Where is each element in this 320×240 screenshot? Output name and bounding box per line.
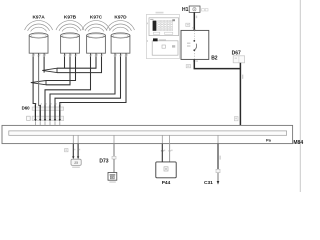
inset container bbox=[146, 12, 179, 59]
page border right bbox=[299, 0, 301, 192]
wire H1 to B2 bbox=[193, 12, 195, 30]
pin box A bbox=[65, 149, 68, 152]
wire bar to D73 bbox=[113, 135, 115, 156]
wire K97C pin3 to arrow1 bbox=[57, 57, 102, 73]
wires bar to connector block bbox=[72, 135, 80, 159]
junction bar M84 bbox=[2, 125, 293, 143]
svg-text:H1: H1 bbox=[182, 7, 189, 13]
svg-text:K97B: K97B bbox=[64, 15, 77, 21]
ignition coil K97C bbox=[82, 15, 110, 58]
wire K97A pin1 to D60 pin1 bbox=[33, 57, 35, 119]
horn H1 box bbox=[189, 6, 200, 12]
svg-text:K97D: K97D bbox=[114, 15, 127, 21]
H1 side marks bbox=[202, 9, 208, 11]
svg-text:M84: M84 bbox=[293, 140, 303, 146]
wires D60 into bar M84 bbox=[35, 121, 59, 131]
svg-text:D73: D73 bbox=[99, 159, 108, 165]
pin box below B2 bbox=[186, 65, 190, 68]
pin label B2 bottom bbox=[193, 60, 195, 62]
off-page arrow node 1 bbox=[42, 68, 57, 72]
arrow C31 bbox=[217, 181, 220, 185]
svg-text:25: 25 bbox=[74, 161, 78, 165]
sensor P44 box bbox=[156, 162, 176, 178]
wire K97D pin3 to D60 pin6 bbox=[60, 57, 126, 119]
svg-text:Pa: Pa bbox=[266, 138, 272, 143]
pin label B2 top bbox=[193, 29, 195, 31]
pin box on H1 wire bbox=[186, 23, 190, 26]
wire B2 to D67 node bbox=[194, 59, 240, 68]
wire D73 to ground box bbox=[113, 159, 115, 173]
wire D67 to bar M84 bbox=[239, 63, 241, 126]
wire K97B pin3 to arrow2 bbox=[46, 57, 76, 81]
wire K97B pin1 to arrow1 bus bbox=[64, 57, 66, 68]
wire K97D pin2 to D60 pin5 bbox=[55, 57, 121, 119]
svg-text:D60: D60 bbox=[22, 106, 31, 111]
wire K97A pin2 to D60 pin2 bbox=[39, 57, 41, 119]
connector D73 inline bbox=[112, 156, 116, 159]
ignition coil K97D bbox=[107, 15, 135, 58]
connector on C31 wire bbox=[216, 169, 220, 172]
wires bar to P44 bbox=[161, 135, 173, 162]
wire label bbox=[196, 16, 197, 19]
wire K97C pin2 to arrow1 bbox=[57, 57, 96, 68]
inset panel fusebox bottom bbox=[152, 38, 178, 55]
relay B2 box bbox=[181, 30, 209, 59]
wire K97D pin1 to D60 pin4 bbox=[50, 57, 115, 119]
wire code label bbox=[242, 75, 243, 79]
connector D60 body bbox=[27, 107, 64, 121]
off-page arrow node 2 bbox=[31, 81, 46, 85]
svg-text:K97C: K97C bbox=[90, 15, 103, 21]
ignition coil K97A bbox=[25, 15, 53, 58]
ground box G bbox=[108, 173, 117, 183]
wire D67 inside bar bbox=[239, 125, 241, 131]
wire bar to C31 bbox=[218, 135, 221, 169]
svg-text:P44: P44 bbox=[162, 180, 171, 186]
ignition coil K97B bbox=[56, 15, 84, 58]
svg-text:K97A: K97A bbox=[32, 15, 45, 21]
connector D60 pin arrows bbox=[34, 103, 61, 121]
pin box above bar bbox=[234, 117, 238, 121]
svg-text:C31: C31 bbox=[204, 180, 213, 186]
wire K97C pin1 to D60 pin3 bbox=[45, 57, 91, 119]
svg-text:B2: B2 bbox=[211, 55, 218, 61]
connector D67 body bbox=[233, 56, 244, 63]
wire C31 lower bbox=[217, 173, 219, 182]
inset panel fusebox top bbox=[147, 18, 179, 42]
wire K97A pin3 to arrow1 bbox=[43, 57, 45, 73]
connector block 25 bbox=[71, 159, 81, 168]
wire K97B pin2 to arrow2 bbox=[46, 57, 70, 85]
